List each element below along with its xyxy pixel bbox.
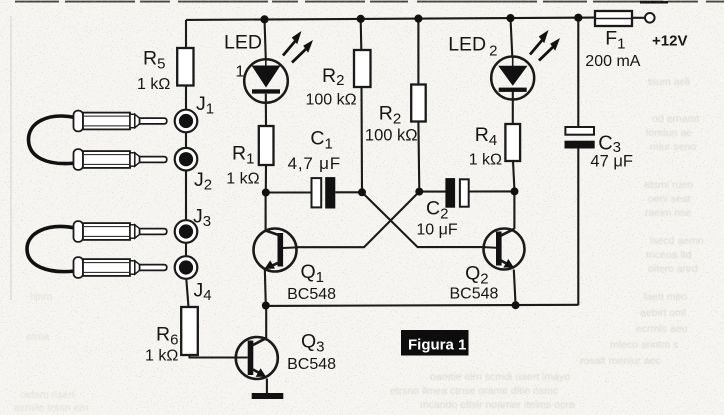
svg-text:2: 2 xyxy=(489,42,497,59)
svg-text:BC548: BC548 xyxy=(287,356,336,373)
svg-text:LED: LED xyxy=(224,31,262,53)
svg-text:10 μF: 10 μF xyxy=(416,222,457,239)
svg-text:+12V: +12V xyxy=(652,33,687,50)
svg-text:1 kΩ: 1 kΩ xyxy=(226,171,259,188)
svg-text:100 kΩ: 100 kΩ xyxy=(306,92,357,109)
svg-text:Figura 1: Figura 1 xyxy=(408,337,466,354)
svg-text:1 kΩ: 1 kΩ xyxy=(145,348,178,365)
svg-text:BC548: BC548 xyxy=(287,286,336,303)
svg-text:BC548: BC548 xyxy=(450,286,499,303)
svg-text:4,7 μF: 4,7 μF xyxy=(288,154,341,173)
svg-text:47 μF: 47 μF xyxy=(590,153,633,171)
svg-text:1: 1 xyxy=(236,64,245,81)
svg-text:200 mA: 200 mA xyxy=(585,53,640,70)
svg-text:LED: LED xyxy=(448,34,486,56)
svg-text:1 kΩ: 1 kΩ xyxy=(137,76,170,93)
svg-text:100 kΩ: 100 kΩ xyxy=(365,127,418,145)
svg-text:1 kΩ: 1 kΩ xyxy=(469,152,502,169)
